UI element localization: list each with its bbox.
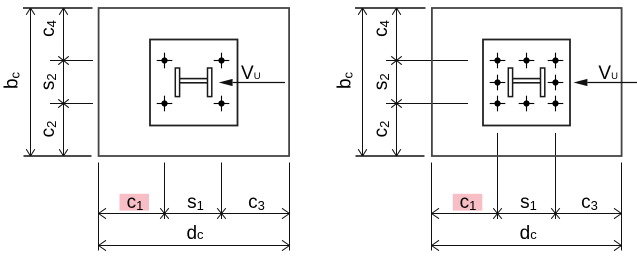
svg-text:dc: dc <box>520 223 538 244</box>
svg-text:dc: dc <box>186 223 204 244</box>
